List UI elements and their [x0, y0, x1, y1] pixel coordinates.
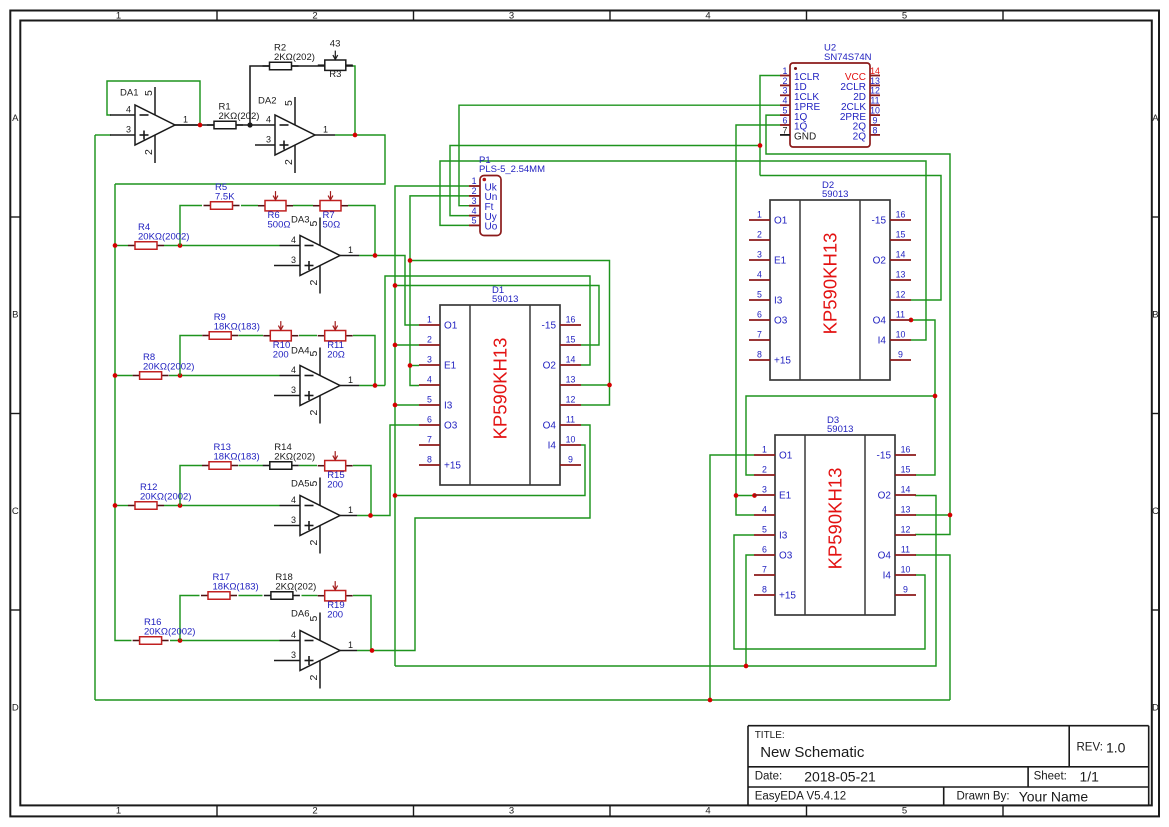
svg-text:Sheet:: Sheet: [1034, 771, 1067, 783]
wire D3 pin13 branch [915, 514, 950, 516]
svg-text:I4: I4 [548, 441, 557, 452]
svg-text:12: 12 [870, 86, 880, 96]
svg-text:500Ω: 500Ω [268, 220, 291, 231]
D3 pin 1 [754, 445, 793, 462]
svg-text:O3: O3 [779, 551, 793, 562]
svg-text:2: 2 [783, 76, 788, 86]
U2 pin 1 [780, 66, 820, 83]
U2 pin 5 [780, 106, 808, 123]
svg-text:A: A [1152, 113, 1159, 124]
wire R2 feedback vertical (black) [250, 66, 270, 125]
D3 pin 16 [877, 445, 916, 462]
U2 pin 3 [780, 86, 819, 103]
wire P1 pin3 Ft up to U2 pin4 1PRE [459, 105, 780, 206]
wire R7 to DA3 output (feedback) [348, 206, 375, 256]
IC U2 SN74S74N [790, 43, 872, 148]
svg-text:2KΩ(202): 2KΩ(202) [274, 452, 315, 463]
svg-text:5: 5 [757, 290, 762, 300]
svg-text:4: 4 [472, 206, 477, 216]
P1 pin 4 [469, 206, 497, 223]
svg-text:13: 13 [870, 76, 880, 86]
svg-text:3: 3 [126, 125, 131, 135]
D3 pin 15 [895, 465, 916, 476]
svg-text:+15: +15 [774, 356, 791, 367]
svg-text:1: 1 [348, 375, 353, 385]
DA1 output stub [175, 124, 200, 126]
D1 pin 11 [543, 415, 581, 432]
junction dot DA3 output [373, 253, 378, 258]
svg-text:2: 2 [308, 675, 320, 681]
resistor R1 [207, 102, 259, 129]
wire Uk branch to D1 pin10 I4 [395, 445, 585, 496]
DA1 pin3 stub [110, 134, 135, 136]
svg-text:4: 4 [291, 630, 296, 640]
DA5 pin4 stub [280, 505, 301, 507]
wire Un branch to D1 pin13/pin12 [410, 261, 610, 406]
svg-text:2: 2 [143, 149, 155, 155]
P1 pin 3 [469, 196, 494, 213]
junction dot at D1 pin13 [607, 383, 612, 388]
svg-text:8: 8 [873, 125, 878, 135]
svg-text:2: 2 [312, 10, 317, 21]
svg-text:13: 13 [901, 505, 911, 515]
D2 pin 1 [749, 210, 788, 227]
svg-text:2: 2 [472, 186, 477, 196]
svg-text:DA5: DA5 [291, 479, 309, 490]
svg-text:3: 3 [266, 135, 271, 145]
D2 pin 5 [749, 290, 783, 307]
op-amp DA4 [291, 346, 353, 424]
svg-text:5: 5 [902, 806, 907, 817]
IC D2 (KP590KH13) [749, 180, 911, 380]
svg-text:14: 14 [566, 355, 576, 365]
svg-text:O1: O1 [444, 321, 458, 332]
svg-text:4: 4 [266, 115, 271, 125]
svg-text:New Schematic: New Schematic [760, 744, 865, 761]
svg-text:3: 3 [291, 255, 296, 265]
svg-text:7: 7 [427, 435, 432, 445]
DA4 pin4 stub [280, 375, 301, 377]
frame row ticks [10, 217, 1159, 610]
wire R12 to DA5 pin4 [164, 505, 280, 507]
D2 pin 16 [872, 210, 911, 227]
resistor R5 [204, 182, 240, 209]
resistor R2 [263, 43, 315, 70]
op-amp DA2 [258, 96, 328, 174]
svg-text:3: 3 [783, 86, 788, 96]
wire U2 pin6 1Q-bar to D3 pin4 [736, 125, 780, 515]
svg-text:-15: -15 [542, 321, 557, 332]
svg-text:B: B [1152, 310, 1158, 321]
svg-text:8: 8 [757, 350, 762, 360]
svg-text:6: 6 [757, 310, 762, 320]
DA4 pin3 stub [274, 395, 300, 397]
wire R16 node up to R17 [180, 596, 200, 641]
resistor R12 [128, 482, 191, 509]
svg-text:10: 10 [566, 435, 576, 445]
svg-text:12: 12 [901, 525, 911, 535]
U2 pin 8 [853, 125, 880, 142]
wire R3 right stub (black) [346, 65, 354, 67]
svg-text:Your Name: Your Name [1019, 788, 1089, 804]
svg-text:18KΩ(183): 18KΩ(183) [214, 452, 260, 463]
svg-text:DA1: DA1 [120, 88, 138, 99]
wire D3 pin11 to bottom bus [915, 555, 950, 700]
svg-text:4: 4 [427, 375, 432, 385]
svg-text:I4: I4 [883, 571, 892, 582]
junction dot D2.O4 net split [933, 394, 938, 399]
junction dot at D3 pin3 stub [752, 493, 757, 498]
svg-text:5: 5 [783, 106, 788, 116]
D2 pin 4 [749, 270, 770, 281]
U2 pin1 marker dot [794, 67, 797, 70]
wire Un branch to D1 pin3 E1 [410, 365, 419, 367]
DA6 output stub [340, 650, 357, 652]
junction dot DA4 output [373, 383, 378, 388]
resistor R13 [202, 442, 260, 469]
svg-text:1: 1 [323, 125, 328, 135]
wire bottom bus y=700 (DA1.3 / D3.O1 / D3.11 net) [95, 699, 950, 701]
svg-text:3: 3 [291, 650, 296, 660]
D1 pin 14 [543, 355, 581, 372]
svg-text:O4: O4 [873, 316, 887, 327]
frame row labels left [12, 113, 19, 714]
U2 pin 14 [845, 66, 880, 83]
DA5 output stub [340, 515, 357, 517]
svg-text:O2: O2 [878, 491, 892, 502]
svg-text:10: 10 [896, 330, 906, 340]
svg-text:10: 10 [870, 106, 880, 116]
wire R16 to DA6 pin4 [170, 640, 280, 642]
DA2 pin3 stub [255, 144, 275, 146]
DA2 output stub [315, 134, 335, 136]
D1 pin 16 [542, 315, 581, 332]
svg-text:16: 16 [896, 210, 906, 220]
svg-text:2: 2 [427, 335, 432, 345]
svg-text:2: 2 [312, 806, 317, 817]
svg-text:9: 9 [903, 585, 908, 595]
svg-text:1: 1 [348, 505, 353, 515]
svg-text:1: 1 [116, 10, 121, 21]
svg-text:7: 7 [762, 565, 767, 575]
svg-text:3: 3 [291, 515, 296, 525]
op-amp DA1 [120, 87, 188, 163]
wire DA4 output to x=385 corner [359, 385, 385, 387]
svg-text:5: 5 [143, 90, 155, 96]
svg-text:4: 4 [762, 505, 767, 515]
svg-text:16: 16 [566, 315, 576, 325]
U2 pin 12 [853, 86, 880, 103]
D1 pin 6 [419, 415, 458, 432]
frame column labels bottom [116, 806, 907, 817]
svg-text:59013: 59013 [827, 424, 853, 435]
svg-text:4: 4 [705, 10, 710, 21]
P1 pin 5 [469, 216, 498, 233]
wire R9 to R10 [239, 335, 264, 337]
svg-text:3: 3 [509, 10, 514, 21]
D1 pin 3 [419, 355, 457, 372]
svg-text:6: 6 [427, 415, 432, 425]
svg-text:4: 4 [705, 806, 710, 817]
svg-text:5: 5 [902, 10, 907, 21]
svg-text:20KΩ(2002): 20KΩ(2002) [144, 627, 195, 638]
frame column ticks [217, 11, 1003, 817]
D3 pin 7 [754, 565, 775, 576]
svg-text:15: 15 [896, 230, 906, 240]
svg-text:1: 1 [348, 640, 353, 650]
svg-text:I3: I3 [779, 531, 788, 542]
svg-text:DA3: DA3 [291, 215, 309, 226]
svg-text:1/1: 1/1 [1080, 769, 1100, 785]
wire Uk bus bottom to D3 pin14 O2 [395, 496, 936, 667]
D2 pin 12 [890, 290, 911, 301]
svg-text:2Q: 2Q [853, 132, 867, 143]
junction dot D3.O1 net at bottom bus [708, 698, 713, 703]
svg-text:EasyEDA V5.4.12: EasyEDA V5.4.12 [755, 790, 846, 802]
svg-text:43: 43 [330, 39, 341, 50]
wire D3 pin6 O3 to Uk bottom bus [746, 555, 754, 666]
svg-text:15: 15 [566, 335, 576, 345]
D1 pin 13 [560, 375, 581, 386]
junction dot Uk at D3 pin6 branch [744, 664, 749, 669]
wire input bus x=115 down to R16 [115, 184, 132, 641]
wire DA1 output to R1 to DA2 pin4 (black) [175, 124, 250, 126]
wire DA6 output to D1 pin11 O4 [357, 425, 590, 651]
svg-text:200: 200 [327, 480, 343, 491]
svg-text:PLS-5_2.54MM: PLS-5_2.54MM [479, 164, 545, 175]
svg-text:DA4: DA4 [291, 346, 309, 357]
svg-text:5: 5 [308, 481, 320, 487]
svg-text:6: 6 [783, 115, 788, 125]
wire U2 pin5 1Q to D3 pin13 and pin12 [766, 115, 950, 534]
D1 pin 1 [419, 315, 458, 332]
wire R17 to R18 [239, 595, 263, 597]
wire bus to R4 [115, 245, 128, 247]
op-amp DA6 [291, 609, 353, 689]
wire left rail x=95 down to bottom bus [94, 135, 96, 700]
svg-text:15: 15 [901, 465, 911, 475]
wire R11 to DA4 output (feedback) [353, 336, 375, 386]
svg-text:2: 2 [308, 410, 320, 416]
wire R4 to DA3 pin4 [164, 245, 280, 247]
svg-text:3: 3 [472, 196, 477, 206]
junction dot Uk at D1 pin5 [393, 403, 398, 408]
D1 pin 12 [560, 395, 581, 406]
U2 pin 6 [780, 115, 808, 132]
svg-text:O1: O1 [774, 216, 788, 227]
svg-text:I3: I3 [444, 401, 453, 412]
wire R10 to R11 [299, 335, 317, 337]
wire R12 node up to R13 [180, 466, 202, 506]
junction dot 1Q net at D3 pin13 [948, 513, 953, 518]
wire R13 to R14 [239, 465, 264, 467]
svg-text:4: 4 [291, 365, 296, 375]
resistor R4 [128, 222, 189, 249]
svg-text:9: 9 [873, 115, 878, 125]
svg-text:2KΩ(202): 2KΩ(202) [219, 111, 260, 122]
svg-text:C: C [12, 506, 19, 517]
svg-text:4: 4 [291, 235, 296, 245]
junction dot Un branch [408, 258, 413, 263]
D1 pin 7 [419, 435, 440, 446]
svg-text:O2: O2 [873, 256, 887, 267]
D2 pin 6 [749, 310, 788, 327]
svg-text:11: 11 [896, 310, 905, 320]
junction dot at D3 pin3 branch [734, 493, 739, 498]
wire P1 pin5 Uo to D2 pin10 I4 [440, 161, 926, 340]
U2 pin 13 [840, 76, 880, 93]
svg-text:200: 200 [273, 350, 289, 361]
svg-text:50Ω: 50Ω [323, 220, 341, 231]
svg-text:5: 5 [427, 395, 432, 405]
wire DA4 output up to D1 pin14 O2 [385, 276, 590, 386]
svg-text:2018-05-21: 2018-05-21 [804, 769, 876, 785]
D2 pin 10 [878, 330, 911, 347]
D2 pin 3 [749, 250, 787, 267]
DA3 pin4 stub [280, 245, 301, 247]
svg-text:2: 2 [283, 159, 295, 165]
wire U2 pin1 1CLR down to junction [760, 76, 780, 176]
wire D2 pin11 O4 to D3 pin2 and D3 pin15 [911, 320, 935, 475]
wire P1 pin4 Uy to U2 pin1 junction [450, 146, 760, 216]
D3 pin 6 [754, 545, 793, 562]
junction dot Uk branch y=285 [393, 283, 398, 288]
wire bus to R12 [115, 505, 128, 507]
svg-text:12: 12 [566, 395, 576, 405]
D1 pin 9 [560, 455, 581, 466]
wire D3 pin1 to bottom bus [710, 455, 754, 700]
wire branch to D3 pin3 E1 [736, 495, 754, 497]
junction dot DA6 output [370, 648, 375, 653]
svg-text:16: 16 [901, 445, 911, 455]
U2 pin 10 [840, 106, 880, 123]
svg-text:KP590KH13: KP590KH13 [490, 338, 511, 440]
svg-text:DA6: DA6 [291, 609, 309, 620]
potentiometer R10 [263, 321, 298, 361]
wire R3 to DA2 output junction [353, 66, 355, 135]
junction dot at R16 right [178, 638, 183, 643]
svg-text:4: 4 [783, 96, 788, 106]
D3 pin 3 [754, 485, 792, 502]
D3 pin 5 [754, 525, 788, 542]
wire R18 to R19 [302, 595, 318, 597]
resistor R18 [264, 572, 316, 599]
D3 pin 8 [754, 585, 796, 602]
junction dot Uk at D1 pin2 [393, 343, 398, 348]
svg-text:DA2: DA2 [258, 96, 276, 107]
wire DA1 feedback loop [107, 81, 200, 125]
DA1 pin4 stub [110, 114, 135, 116]
frame row labels right [1152, 113, 1159, 714]
svg-text:20Ω: 20Ω [327, 350, 345, 361]
wire R19 to DA6 output (feedback) [353, 596, 371, 651]
svg-text:+15: +15 [444, 461, 461, 472]
svg-text:A: A [12, 113, 19, 124]
wire DA1 pin3 to left rail [95, 134, 111, 136]
svg-text:E1: E1 [444, 361, 457, 372]
D3 pin 4 [754, 505, 775, 516]
wire R8 node up to R9 [180, 336, 202, 376]
D1 pin 4 [419, 375, 440, 386]
D3 pin 13 [895, 505, 916, 516]
svg-text:14: 14 [870, 66, 880, 76]
svg-text:5: 5 [472, 216, 477, 226]
svg-text:1: 1 [427, 315, 432, 325]
DA6 pin3 stub [274, 660, 300, 662]
svg-text:TITLE:: TITLE: [755, 730, 785, 741]
svg-text:1: 1 [783, 66, 788, 76]
svg-text:1: 1 [116, 806, 121, 817]
svg-text:3: 3 [757, 250, 762, 260]
svg-text:O1: O1 [779, 451, 793, 462]
wire DA5 output to D1 pin6 O3 [357, 425, 419, 516]
junction dot U2 pin1 net [758, 143, 763, 148]
resistor R17 [201, 572, 259, 599]
wire D3 pin5 I3 to D3 pin10 I4 [734, 535, 925, 649]
svg-text:1.0: 1.0 [1106, 740, 1126, 756]
svg-text:1: 1 [183, 115, 188, 125]
svg-text:2KΩ(202): 2KΩ(202) [275, 582, 316, 593]
D1 pin 8 [419, 455, 461, 472]
svg-text:O4: O4 [543, 421, 557, 432]
junction dot Un at D1 pin3 [408, 363, 413, 368]
resistor R8 [133, 352, 195, 379]
DA6 pin4 stub [280, 640, 301, 642]
wire R2 to R3 (black) [291, 65, 325, 67]
svg-text:E1: E1 [779, 491, 792, 502]
svg-text:4: 4 [757, 270, 762, 280]
D3 pin 12 [895, 525, 916, 536]
svg-text:R3: R3 [329, 69, 341, 80]
DA3 pin3 stub [274, 265, 300, 267]
junction dot at R4 right [178, 243, 183, 248]
svg-text:-15: -15 [872, 216, 887, 227]
svg-text:Date:: Date: [755, 771, 783, 783]
svg-text:5: 5 [762, 525, 767, 535]
wire D1 pin13 to Un net [581, 384, 610, 386]
connector P1 PLS-5_2.54MM [479, 155, 545, 236]
wire R8 to DA4 pin4 [169, 375, 280, 377]
svg-text:3: 3 [509, 806, 514, 817]
junction dot Uk at D1 pin10 [393, 493, 398, 498]
svg-text:E1: E1 [774, 256, 787, 267]
svg-text:B: B [12, 310, 18, 321]
junction dot at R8 right [178, 373, 183, 378]
D1 pin 2 [419, 335, 440, 346]
wire R4 node up to R5 [180, 206, 202, 246]
svg-text:1: 1 [472, 176, 477, 186]
svg-text:200: 200 [327, 610, 343, 621]
svg-text:2: 2 [757, 230, 762, 240]
svg-text:I3: I3 [774, 296, 783, 307]
svg-text:7: 7 [757, 330, 762, 340]
svg-text:+15: +15 [779, 591, 796, 602]
D2 pin 2 [749, 230, 770, 241]
D2 pin 11 [873, 310, 911, 327]
svg-text:11: 11 [566, 415, 575, 425]
wire DA2 output to input bus [115, 135, 385, 184]
svg-text:D: D [1152, 703, 1159, 714]
svg-text:1: 1 [757, 210, 762, 220]
svg-text:2: 2 [762, 465, 767, 475]
svg-text:11: 11 [870, 96, 879, 106]
svg-text:18KΩ(183): 18KΩ(183) [214, 322, 260, 333]
DA5 pin3 stub [274, 525, 300, 527]
IC D3 (KP590KH13) [754, 415, 916, 615]
svg-text:5: 5 [308, 616, 320, 622]
junction dot at R4 left [113, 243, 118, 248]
frame column labels top [116, 10, 907, 21]
